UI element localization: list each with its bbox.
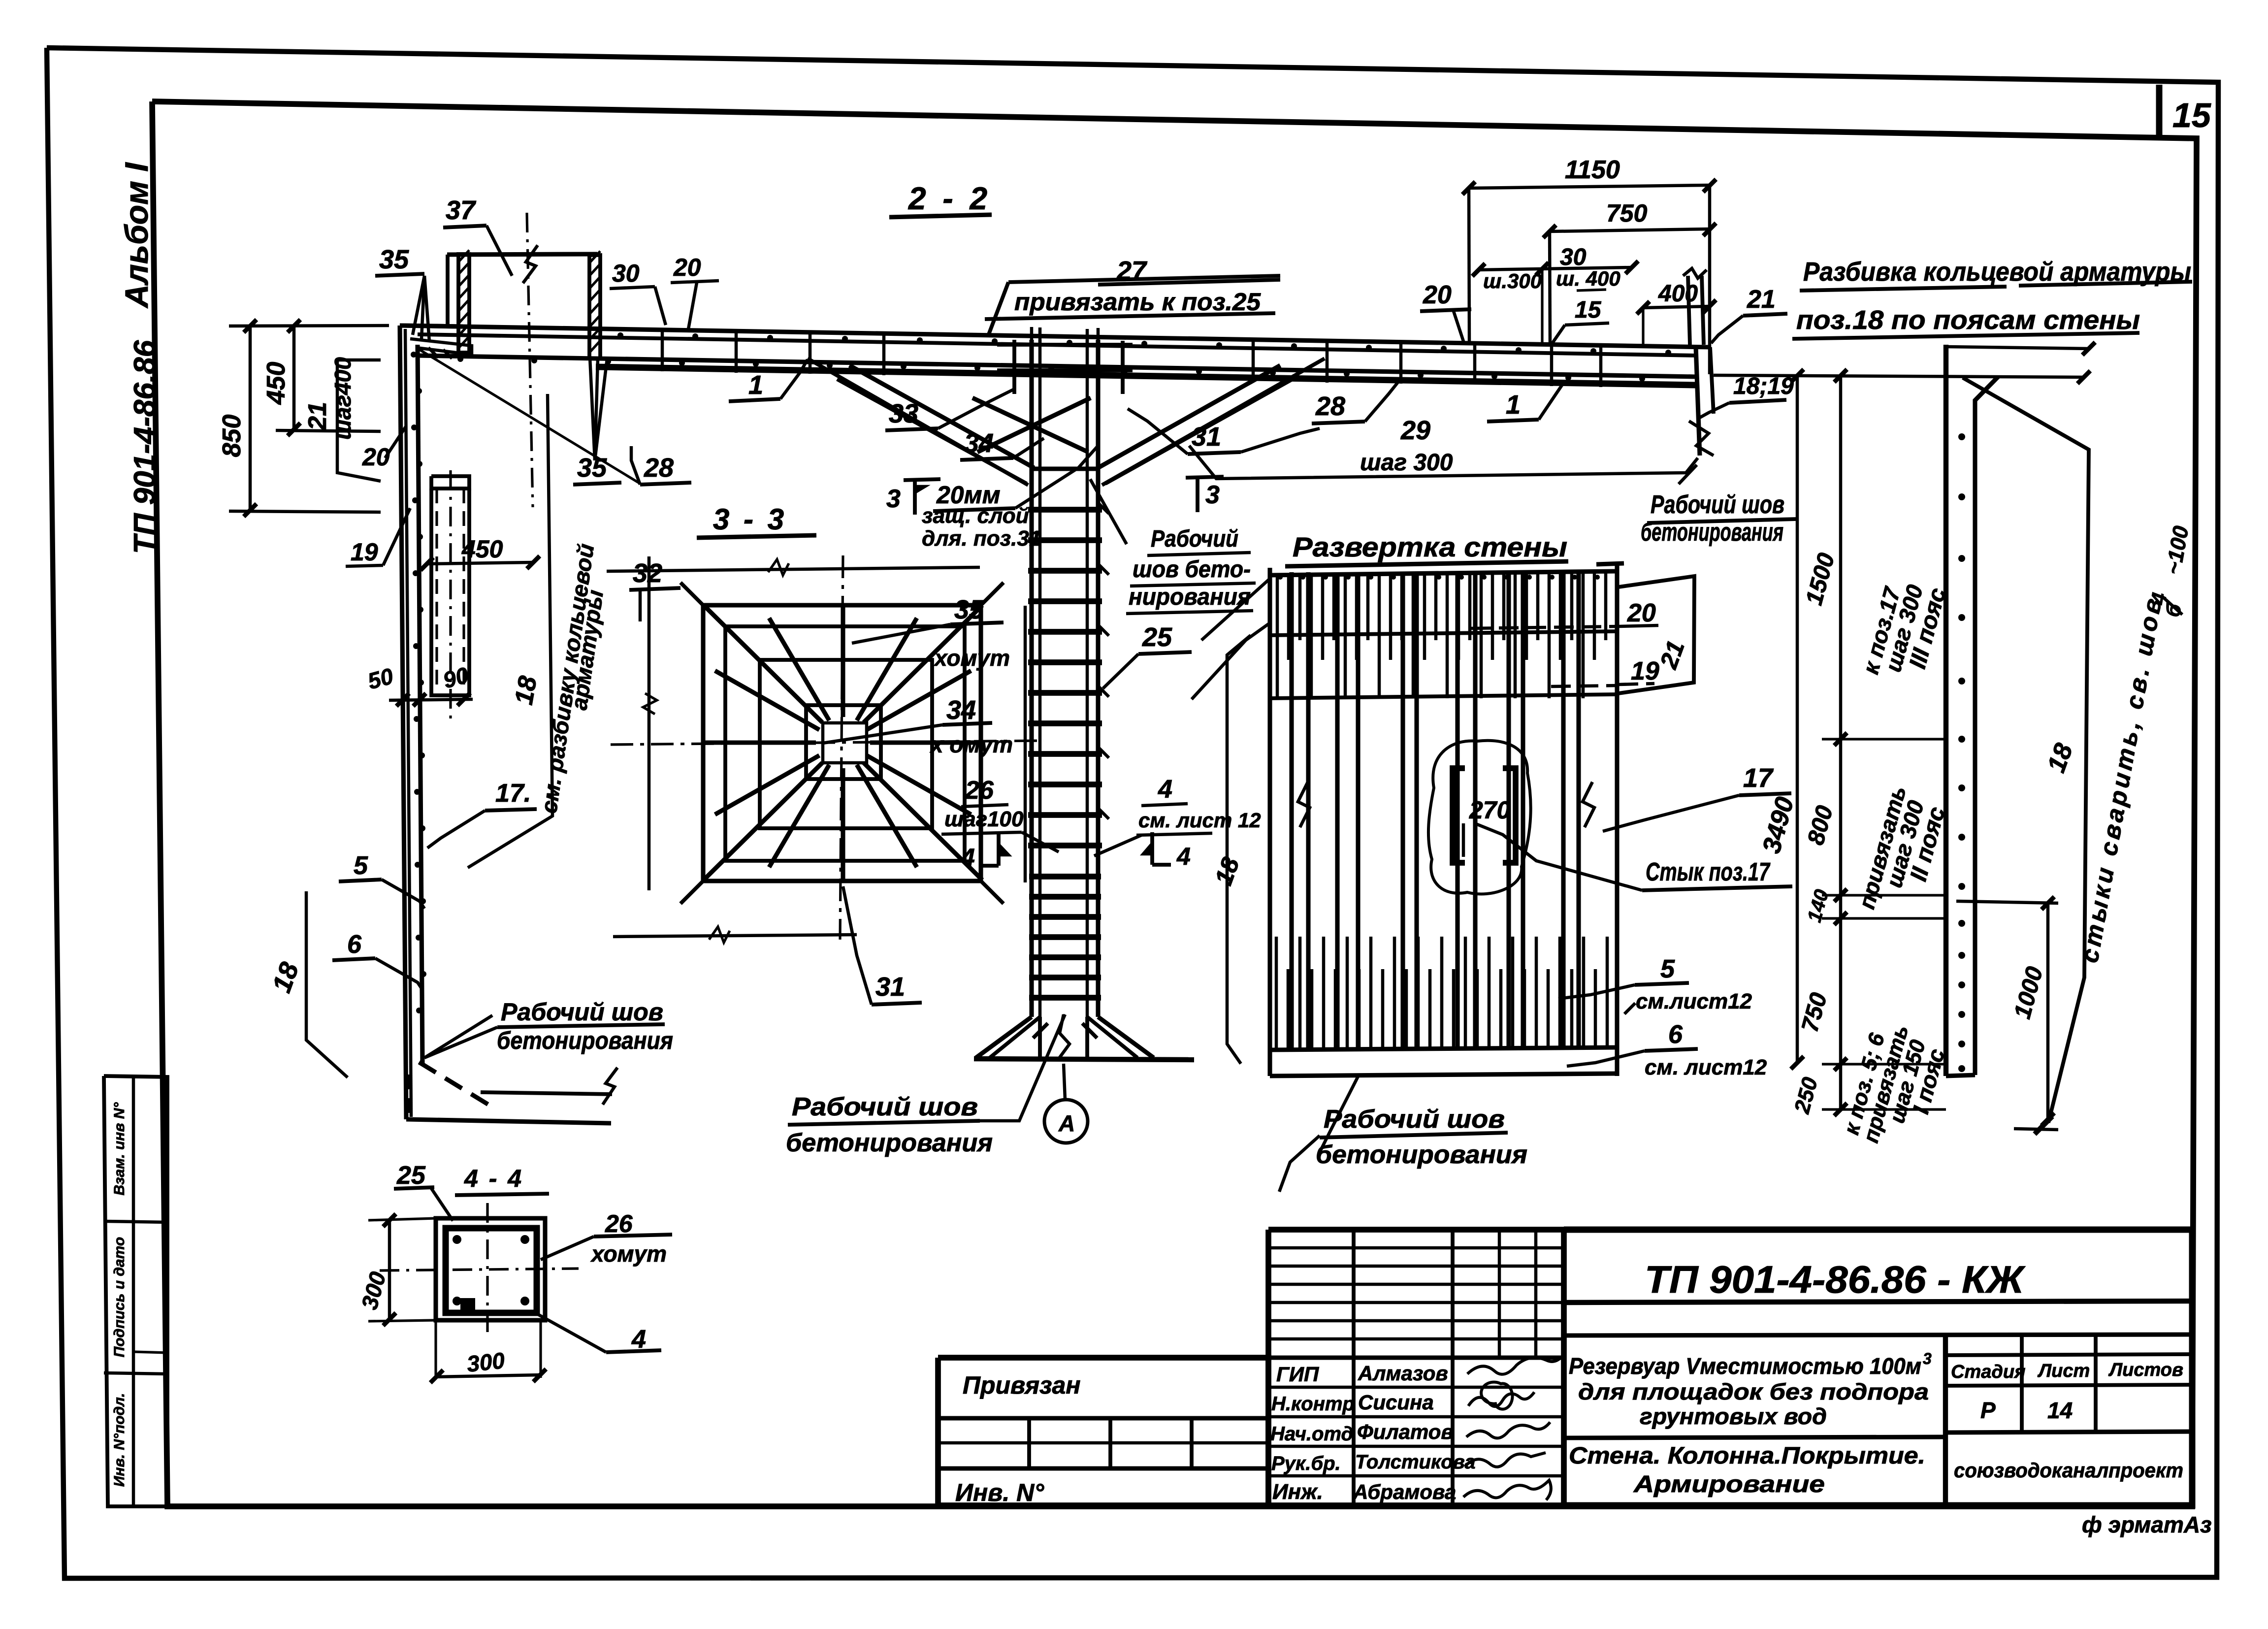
svg-text:28: 28 bbox=[1315, 391, 1345, 421]
svg-text:450: 450 bbox=[461, 535, 503, 563]
svg-text:1150: 1150 bbox=[1565, 156, 1620, 184]
3-3 right extension line bbox=[1024, 606, 1027, 882]
18 leader diagonal bbox=[1963, 378, 2089, 1123]
svg-text:1: 1 bbox=[1506, 390, 1521, 420]
slab bottom line bbox=[418, 356, 1696, 377]
title block: right section outline bbox=[1564, 1230, 2192, 1505]
4-4 outer square bbox=[436, 1218, 545, 1320]
slab bottom rebar dots row bbox=[457, 356, 463, 362]
wall dev lower starter bars bbox=[1275, 937, 1278, 1048]
svg-text:3: 3 bbox=[1923, 1350, 1932, 1368]
svg-text:для. поз.31: для. поз.31 bbox=[922, 526, 1041, 551]
slab reinforcement line upper bbox=[418, 334, 1698, 356]
wall development outline bbox=[1267, 568, 1272, 1076]
wall rebar dots bbox=[411, 352, 417, 358]
svg-text:ф эрматАз: ф эрматАз bbox=[2082, 1512, 2212, 1537]
svg-text:Толстикова: Толстикова bbox=[1355, 1451, 1476, 1473]
capital haunch right outer bbox=[1098, 365, 1280, 468]
section mark 4 left bbox=[997, 833, 1001, 866]
floor line break mark bbox=[603, 1068, 617, 1105]
svg-text:Стадия: Стадия bbox=[1951, 1362, 2025, 1382]
svg-text:35: 35 bbox=[379, 245, 409, 274]
spiderweb center squares bbox=[806, 705, 881, 779]
svg-text:14: 14 bbox=[2047, 1398, 2073, 1423]
svg-text:шаг100: шаг100 bbox=[944, 807, 1024, 831]
opening curb outer face bbox=[446, 255, 450, 326]
svg-text:2 - 2: 2 - 2 bbox=[908, 181, 991, 216]
svg-text:см. лист 12: см. лист 12 bbox=[1138, 809, 1261, 832]
svg-text:37: 37 bbox=[446, 195, 477, 225]
svg-text:3490: 3490 bbox=[1757, 794, 1800, 856]
callout bracket 20/19/21 bbox=[1619, 576, 1694, 693]
right wall piece bbox=[1696, 347, 1700, 456]
column shaft left lines bbox=[1029, 340, 1034, 1017]
svg-text:Привязан: Привязан bbox=[963, 1371, 1081, 1399]
slab lower reinforcement heavy line bbox=[596, 367, 1696, 385]
dim 1000 bbox=[2046, 902, 2050, 1120]
dim 450 vertical bbox=[292, 325, 296, 430]
foundation inner verticals bbox=[1038, 1017, 1042, 1058]
svg-text:см.лист12: см.лист12 bbox=[1636, 989, 1752, 1013]
dim 1150 bbox=[1469, 185, 1710, 188]
foundation flare left bbox=[976, 1017, 1032, 1058]
title block: attachment table bbox=[938, 1358, 1268, 1505]
svg-text:400: 400 bbox=[1658, 281, 1698, 307]
svg-text:34: 34 bbox=[964, 428, 994, 458]
slab transverse bar ticks bbox=[661, 331, 664, 371]
spiderweb radial lines bbox=[870, 740, 980, 745]
foundation inner slant ticks bbox=[1033, 1023, 1048, 1038]
svg-text:шаг 300: шаг 300 bbox=[1360, 450, 1453, 476]
svg-text:250: 250 bbox=[1790, 1075, 1823, 1116]
svg-text:Инж.: Инж. bbox=[1272, 1480, 1323, 1504]
svg-text:300: 300 bbox=[466, 1347, 506, 1377]
svg-text:союзводоканалпроект: союзводоканалпроект bbox=[1954, 1459, 2183, 1482]
column bars into slab bbox=[1038, 327, 1042, 345]
capital X diagonals bbox=[972, 398, 1088, 452]
svg-text:Инв. N°подл.: Инв. N°подл. bbox=[111, 1393, 128, 1487]
svg-text:1: 1 bbox=[748, 370, 763, 400]
svg-text:Подпись и дато: Подпись и дато bbox=[111, 1237, 128, 1357]
svg-text:21: 21 bbox=[1747, 285, 1776, 314]
opening cap break mark bbox=[523, 245, 538, 283]
wall dev upper short bars bbox=[1276, 573, 1279, 698]
svg-text:20: 20 bbox=[1423, 281, 1452, 309]
stadia list grid bbox=[1943, 1336, 1948, 1505]
svg-text:31: 31 bbox=[875, 972, 905, 1002]
svg-text:для площадок без подпора: для площадок без подпора bbox=[1578, 1379, 1929, 1404]
svg-text:Н.контр: Н.контр bbox=[1271, 1393, 1355, 1415]
svg-text:бетонирования: бетонирования bbox=[497, 1027, 673, 1054]
floor line at wall bottom bbox=[406, 1119, 611, 1123]
svg-text:Р: Р bbox=[1980, 1398, 1996, 1423]
wall corner angle bracket poz21 bbox=[410, 339, 472, 355]
svg-text:25: 25 bbox=[1142, 622, 1172, 652]
inner drawing frame bbox=[152, 101, 2197, 1506]
svg-text:21: 21 bbox=[303, 402, 332, 431]
4-4 dim 300 left bbox=[388, 1219, 391, 1320]
svg-text:19: 19 bbox=[351, 538, 378, 566]
svg-text:Рабочий шов: Рабочий шов bbox=[792, 1093, 978, 1121]
column rungs lower (shag100) bbox=[1029, 874, 1101, 880]
svg-text:ш.300: ш.300 bbox=[1483, 269, 1542, 293]
wall inner face bbox=[418, 345, 422, 1065]
svg-text:26: 26 bbox=[605, 1210, 633, 1238]
band segment dim line bbox=[1839, 376, 1843, 1109]
svg-text:Развертка стены: Развертка стены bbox=[1293, 531, 1567, 562]
opening centerline bbox=[527, 213, 533, 507]
svg-text:18;19: 18;19 bbox=[1733, 373, 1794, 399]
svg-text:Лист: Лист bbox=[2037, 1361, 2090, 1381]
svg-text:хомут: хомут bbox=[933, 645, 1010, 671]
svg-text:Нач.отд: Нач.отд bbox=[1270, 1423, 1353, 1445]
4-4 rebar dots bbox=[453, 1235, 461, 1244]
column joint line below capital bbox=[1032, 466, 1098, 471]
svg-text:21: 21 bbox=[1654, 637, 1690, 672]
svg-text:750: 750 bbox=[1797, 990, 1832, 1035]
svg-text:15: 15 bbox=[2172, 96, 2211, 134]
svg-text:20: 20 bbox=[1627, 599, 1656, 627]
svg-text:см. лист12: см. лист12 bbox=[1645, 1055, 1767, 1079]
section mark 3 left bbox=[904, 479, 940, 480]
wall dev bottom edge bbox=[1270, 1074, 1617, 1076]
svg-text:Альбом I: Альбом I bbox=[118, 162, 155, 309]
4-4 dim 300 bottom bbox=[436, 1375, 541, 1377]
svg-text:30: 30 bbox=[612, 260, 640, 287]
svg-text:х омут: х омут bbox=[929, 732, 1013, 757]
svg-text:18: 18 bbox=[267, 958, 305, 996]
4-4 corner mark bbox=[460, 1298, 475, 1310]
band upper tick line bbox=[1946, 347, 2090, 349]
dim 450 horizontal bbox=[427, 562, 533, 564]
svg-text:6: 6 bbox=[1668, 1020, 1683, 1049]
spiderweb square 2 bbox=[725, 626, 965, 861]
foundation ground line bbox=[974, 1059, 1194, 1060]
roof opening upstand left (hatched) bbox=[458, 254, 469, 353]
svg-text:4 - 4: 4 - 4 bbox=[464, 1165, 523, 1192]
svg-text:1500: 1500 bbox=[1801, 550, 1840, 608]
svg-text:ТП 901-4-86.86 - КЖ: ТП 901-4-86.86 - КЖ bbox=[1645, 1258, 2026, 1301]
svg-text:б: б bbox=[2161, 602, 2186, 619]
wall dev upper zone bottom bbox=[1270, 694, 1617, 698]
svg-text:450: 450 bbox=[262, 362, 291, 405]
wall bottom joint horizontal bbox=[481, 1092, 612, 1094]
capital rebar diagonal right bbox=[1102, 358, 1325, 485]
3-3 centerline vertical bbox=[840, 555, 843, 940]
svg-text:50: 50 bbox=[365, 663, 396, 694]
svg-text:35: 35 bbox=[954, 595, 984, 624]
svg-text:Алмазов: Алмазов bbox=[1358, 1362, 1448, 1385]
foundation flare right bbox=[1098, 1017, 1154, 1058]
band left dim line 3490 bbox=[1796, 376, 1799, 1064]
wall dev break marks bbox=[1298, 782, 1310, 827]
svg-text:15: 15 bbox=[1575, 297, 1602, 323]
svg-text:4: 4 bbox=[1176, 843, 1191, 870]
column rung hook marks bbox=[1098, 503, 1109, 514]
spiderweb corner ticks bbox=[680, 583, 703, 605]
3-3 top extension line bbox=[607, 567, 980, 571]
svg-text:Инв. N°: Инв. N° bbox=[955, 1479, 1044, 1506]
4-4 centerlines bbox=[380, 1269, 579, 1271]
svg-text:3: 3 bbox=[1205, 481, 1220, 509]
band wall line bbox=[1944, 345, 1948, 1076]
svg-text:шаг400: шаг400 bbox=[330, 357, 356, 440]
svg-text:29: 29 bbox=[1400, 416, 1430, 445]
column rungs upper bbox=[1028, 507, 1102, 513]
spiderweb outer square bbox=[703, 605, 981, 881]
svg-text:4: 4 bbox=[1158, 775, 1172, 804]
svg-text:90: 90 bbox=[440, 662, 471, 693]
capital haunch left inner bbox=[837, 379, 1027, 484]
left margin stamp boxes bbox=[104, 1076, 167, 1506]
band dots bbox=[1958, 433, 1965, 440]
svg-text:Армирование: Армирование bbox=[1633, 1471, 1825, 1498]
svg-text:750: 750 bbox=[1606, 199, 1648, 227]
svg-text:бетонирования: бетонирования bbox=[1316, 1140, 1527, 1169]
signatures squiggles bbox=[1467, 1353, 1565, 1374]
svg-text:поз.18 по поясам стены: поз.18 по поясам стены bbox=[1796, 305, 2140, 335]
svg-text:ГИП: ГИП bbox=[1276, 1363, 1319, 1386]
svg-text:6: 6 bbox=[347, 930, 362, 959]
svg-text:300: 300 bbox=[356, 1269, 390, 1312]
4-4 stirrup square (thick) bbox=[446, 1228, 537, 1313]
svg-text:Стена. Колонна.Покрытие.: Стена. Колонна.Покрытие. bbox=[1569, 1443, 1925, 1469]
svg-text:Листов: Листов bbox=[2108, 1360, 2183, 1380]
svg-text:хомут: хомут bbox=[590, 1241, 667, 1267]
svg-text:Резервуар Vместимостью 100м: Резервуар Vместимостью 100м bbox=[1569, 1353, 1921, 1379]
3-3 left extension line bbox=[648, 556, 651, 890]
page number box line bbox=[2156, 85, 2163, 136]
svg-text:бетонирования: бетонирования bbox=[786, 1129, 993, 1157]
wall top corner line bbox=[400, 326, 463, 326]
svg-text:5: 5 bbox=[354, 851, 368, 880]
svg-text:3: 3 bbox=[886, 485, 901, 513]
svg-text:270: 270 bbox=[1469, 796, 1511, 824]
svg-text:нирования: нирования bbox=[1129, 584, 1251, 610]
svg-text:грунтовых вод: грунтовых вод bbox=[1640, 1403, 1827, 1429]
svg-text:850: 850 bbox=[218, 415, 246, 457]
capital rebar diagonal left (poz33) bbox=[808, 358, 1028, 485]
svg-text:А: А bbox=[1058, 1110, 1075, 1136]
right wall upstand bbox=[1688, 276, 1690, 345]
wall dev upper hooks bbox=[1278, 575, 1283, 580]
razbивка leader line bbox=[468, 394, 552, 868]
svg-text:Взам. инв N°: Взам. инв N° bbox=[111, 1102, 128, 1195]
band bar line with kink bbox=[1975, 377, 1998, 1075]
section mark 4 right bbox=[1150, 832, 1154, 865]
svg-text:18: 18 bbox=[510, 674, 543, 707]
svg-text:Сисина: Сисина bbox=[1358, 1391, 1434, 1414]
column shaft right lines bbox=[1096, 340, 1100, 1017]
svg-text:ТП 901-4-86.86: ТП 901-4-86.86 bbox=[128, 340, 162, 554]
svg-text:20: 20 bbox=[673, 254, 701, 281]
svg-text:17.: 17. bbox=[495, 779, 531, 808]
svg-text:Рабочий шов: Рабочий шов bbox=[1651, 490, 1784, 519]
styk bracket bars bbox=[1453, 768, 1465, 863]
3-3 bottom extension line bbox=[613, 935, 857, 937]
wall face dashed bottom piece bbox=[406, 1075, 410, 1118]
svg-text:5: 5 bbox=[1660, 955, 1675, 983]
svg-text:Рабочий шов: Рабочий шов bbox=[1324, 1105, 1505, 1134]
svg-text:защ. слой: защ. слой bbox=[922, 504, 1029, 528]
designation row bbox=[1564, 1301, 2192, 1303]
wall dev corner leader bbox=[1192, 623, 1270, 699]
svg-text:800: 800 bbox=[1803, 803, 1838, 847]
node circle A bbox=[1044, 1100, 1088, 1143]
svg-text:стыки сварить, св. шов: стыки сварить, св. шов bbox=[2075, 593, 2167, 965]
3-3 centerline horizontal bbox=[611, 741, 1044, 745]
section mark 3 right bbox=[1186, 477, 1224, 478]
svg-text:28: 28 bbox=[644, 453, 674, 483]
column bars crossing slab grid bbox=[1012, 340, 1016, 394]
band top extension line bbox=[1714, 375, 2085, 377]
band bottom corner bbox=[1946, 1075, 1975, 1076]
slab top line bbox=[400, 326, 1710, 347]
svg-text:17: 17 bbox=[1743, 763, 1774, 793]
svg-text:34: 34 bbox=[946, 695, 976, 725]
svg-text:Абрамова: Абрамова bbox=[1353, 1480, 1456, 1503]
roof opening upstand right (hatched) bbox=[589, 255, 600, 358]
svg-text:25: 25 bbox=[396, 1161, 426, 1190]
title block: central signature table bbox=[1268, 1230, 1564, 1505]
svg-text:18: 18 bbox=[2042, 740, 2078, 776]
svg-text:35: 35 bbox=[577, 453, 607, 483]
wall outer face inner line bbox=[405, 329, 411, 1117]
svg-text:Рук.бр.: Рук.бр. bbox=[1271, 1453, 1341, 1474]
spiderweb square 3 bbox=[760, 660, 932, 828]
svg-text:3 - 3: 3 - 3 bbox=[713, 503, 787, 536]
svg-text:Филатов: Филатов bbox=[1357, 1420, 1454, 1443]
svg-text:шов бето-: шов бето- bbox=[1133, 556, 1251, 583]
slab top rebar dots row bbox=[617, 332, 623, 338]
dim 850 vertical bbox=[249, 325, 252, 511]
buried channel below opening bbox=[431, 489, 469, 695]
svg-text:Стык поз.17: Стык поз.17 bbox=[1646, 858, 1771, 886]
wall outer face bbox=[400, 326, 406, 1119]
svg-text:Рабочий: Рабочий bbox=[1151, 526, 1238, 552]
opening curb cap line bbox=[447, 254, 597, 255]
wall dev long vertical bars bbox=[1289, 572, 1294, 1048]
wall dev bottom joint line bbox=[1270, 1047, 1617, 1050]
wall bottom working joint dash diagonal bbox=[419, 1062, 490, 1106]
styk blob outline bbox=[1428, 741, 1531, 894]
svg-text:1000: 1000 bbox=[2009, 964, 2048, 1021]
svg-text:~100: ~100 bbox=[2161, 524, 2194, 577]
wall dev upper chord line2 bbox=[1270, 631, 1617, 635]
svg-text:привязать к поз.25: привязать к поз.25 bbox=[1014, 288, 1261, 316]
svg-text:ш. 400: ш. 400 bbox=[1556, 267, 1620, 290]
svg-text:бетонирования: бетонирования bbox=[1641, 518, 1783, 547]
dim 750 bbox=[1550, 229, 1710, 231]
svg-text:Рабочий шов: Рабочий шов bbox=[501, 998, 663, 1026]
svg-text:31: 31 bbox=[1192, 422, 1221, 452]
capital haunch left outer bbox=[849, 365, 1034, 468]
capital haunch right inner bbox=[1105, 379, 1293, 484]
